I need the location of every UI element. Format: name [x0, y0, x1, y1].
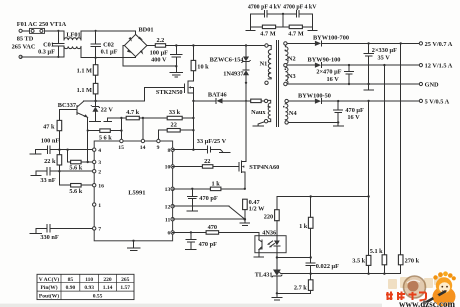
resistor 5.1k [370, 248, 387, 265]
svg-text:BZWC6-154: BZWC6-154 [210, 56, 245, 63]
svg-text:C02: C02 [103, 41, 114, 48]
svg-text:9: 9 [157, 145, 160, 151]
ground at 330nF [30, 228, 41, 233]
svg-text:STK2N50: STK2N50 [156, 89, 183, 96]
svg-text:100 nF: 100 nF [41, 138, 60, 145]
svg-text:5.6 k: 5.6 k [69, 188, 82, 195]
pin 11 [165, 217, 174, 223]
svg-text:0.3 μF: 0.3 μF [38, 49, 55, 56]
op-amp U1 L5991 controller IC box [94, 141, 172, 241]
watermark mascot [424, 271, 456, 306]
capacitor 4700pF 4kV (left) [248, 4, 283, 17]
svg-text:265 VAC: 265 VAC [12, 44, 36, 51]
capacitor 470pF at pin 13 [188, 189, 218, 210]
svg-text:2: 2 [98, 169, 101, 175]
svg-text:1.1 M: 1.1 M [77, 68, 92, 75]
svg-text:265: 265 [121, 277, 130, 283]
svg-text:BYW90-100: BYW90-100 [308, 56, 341, 63]
capacitor 33nF [36, 168, 94, 185]
svg-text:25 V/0.7 A: 25 V/0.7 A [425, 41, 453, 48]
inductor LF01 common-mode choke [64, 31, 81, 48]
svg-text:7: 7 [98, 227, 101, 233]
wire HV- return [123, 46, 178, 68]
transistor STK2N50 (startup MOSFET) [156, 81, 193, 101]
svg-text:2×330 μF: 2×330 μF [372, 47, 397, 54]
resistor 1k compensation [299, 197, 313, 258]
svg-text:33 nF: 33 nF [40, 177, 55, 184]
resistor 33k [167, 109, 182, 120]
capacitor 330nF [36, 225, 94, 241]
wire VCC vertical line [192, 100, 194, 151]
svg-text:470 μF: 470 μF [345, 107, 364, 114]
svg-text:47 k: 47 k [43, 123, 55, 130]
pin 9 [157, 139, 160, 151]
svg-text:1/2 W: 1/2 W [249, 206, 266, 213]
svg-text:5 6 k: 5 6 k [99, 134, 112, 141]
pin 3 [93, 160, 102, 166]
node output 5V [419, 98, 449, 105]
capacitor C02 [91, 30, 118, 59]
svg-text:3: 3 [98, 160, 101, 166]
svg-text:4700 pF 4 kV: 4700 pF 4 kV [248, 4, 282, 10]
svg-text:0.90: 0.90 [66, 285, 76, 291]
pin 6 [167, 231, 174, 237]
diode BYW100-700 [287, 35, 419, 46]
ground at Naux [253, 122, 265, 126]
capacitor 470uF 16V [334, 100, 364, 123]
wire opto cathode to compensation [276, 256, 312, 258]
ground below zener [89, 121, 100, 123]
shunt regulator TL431 [255, 253, 282, 295]
resistor 270k [398, 255, 419, 265]
svg-text:12 V/1.5 A: 12 V/1.5 A [425, 63, 453, 70]
wire feedback sense node line [281, 273, 401, 275]
svg-text:11: 11 [165, 217, 171, 223]
pin 8 [167, 148, 174, 154]
svg-text:270 k: 270 k [405, 258, 420, 265]
wire pin 12 [173, 206, 245, 219]
svg-text:100 μF: 100 μF [150, 49, 169, 56]
transformer winding N4 [283, 99, 297, 124]
svg-text:470: 470 [208, 224, 217, 231]
pin 4 [93, 148, 102, 154]
fuse F01 [17, 21, 67, 33]
ground at opto emitter [254, 253, 264, 258]
resistor 1.1M upper [77, 58, 98, 84]
svg-text:www.dzsc.com: www.dzsc.com [399, 299, 455, 307]
watermark stamp circle [404, 276, 426, 298]
svg-text:N3: N3 [288, 73, 296, 80]
wire pin 11 [173, 218, 247, 221]
svg-text:1 k: 1 k [211, 180, 220, 187]
resistor 3.5k [352, 255, 371, 265]
resistor 47k [43, 110, 62, 150]
svg-text:22 k: 22 k [44, 158, 56, 165]
svg-text:6: 6 [167, 231, 170, 237]
pin 15 [118, 139, 124, 151]
svg-text:16 V: 16 V [347, 114, 360, 121]
resistor 2.2 [155, 37, 165, 47]
wire 5V tap to opto bias [277, 195, 369, 209]
svg-text:LF01: LF01 [66, 31, 80, 38]
wire VCC bus [108, 117, 194, 119]
capacitor 33uF/25V at pin 8 [173, 138, 227, 153]
resistor 5.6k to pin 16 [59, 171, 94, 195]
svg-text:2.2: 2.2 [156, 37, 164, 44]
ground at N4 return [333, 122, 343, 126]
resistor 22k [44, 149, 62, 173]
capacitor 0.022uF [306, 258, 339, 274]
svg-text:5.6 k: 5.6 k [69, 165, 82, 172]
transistor BC337 [58, 101, 89, 163]
svg-text:85: 85 [68, 277, 74, 283]
resistor 10k [191, 44, 209, 81]
svg-text:13: 13 [165, 187, 171, 193]
resistor 0.47 1/2W sense [243, 199, 266, 219]
svg-text:4.7 M: 4.7 M [260, 30, 275, 37]
svg-text:4.7 k: 4.7 k [126, 109, 139, 116]
ground at 100nF [30, 150, 41, 154]
svg-text:16 V: 16 V [326, 76, 339, 83]
svg-text:TL431: TL431 [255, 272, 273, 279]
capacitor 2x330uF 35V [364, 42, 397, 84]
svg-text:15: 15 [118, 145, 124, 151]
pin 1 [93, 203, 102, 209]
pin 2 [93, 169, 102, 175]
wire pin 14 riser [142, 118, 144, 141]
svg-text:4.7 M: 4.7 M [288, 30, 303, 37]
svg-text:2×470 μF: 2×470 μF [316, 69, 341, 76]
pin 12 [165, 204, 175, 210]
diode BYW100-50 [288, 92, 419, 103]
svg-text:Pout(W): Pout(W) [39, 293, 59, 300]
svg-text:1N4937: 1N4937 [223, 70, 243, 77]
svg-text:Naux: Naux [251, 109, 266, 116]
pin 10 [165, 165, 175, 171]
resistor 4.7k [126, 109, 139, 120]
svg-text:85 TD: 85 TD [17, 36, 34, 43]
svg-text:GND: GND [425, 81, 439, 88]
node output GND [419, 81, 439, 88]
svg-text:33 μF/25 V: 33 μF/25 V [197, 138, 227, 145]
capacitor C01 [38, 30, 64, 58]
wire gate STK2N50 to clamp node [84, 88, 185, 101]
ground IC pin 5 [127, 240, 140, 251]
svg-text:4700 pF 4 kV: 4700 pF 4 kV [283, 4, 317, 10]
table power measurements [37, 274, 134, 299]
svg-text:12: 12 [165, 204, 171, 210]
svg-text:5.1 k: 5.1 k [370, 248, 383, 255]
resistor 22 at pin 9 [158, 121, 193, 141]
wire 12V feedback rail [383, 64, 385, 274]
svg-text:3.5 k: 3.5 k [352, 258, 365, 265]
ground at 33uF [219, 152, 230, 154]
svg-text:L5991: L5991 [128, 190, 145, 197]
capacitor 2x470uF 16V [316, 64, 353, 85]
resistor 4.7M (right) [283, 14, 312, 37]
svg-text:5 V/0.5 A: 5 V/0.5 A [425, 98, 450, 105]
resistor 2.7k [277, 274, 313, 294]
svg-text:16: 16 [98, 183, 104, 189]
svg-text:0.93: 0.93 [84, 285, 94, 291]
svg-text:1.57: 1.57 [120, 285, 130, 291]
ground stub snubber right [308, 27, 317, 31]
resistor 1.1M lower [77, 83, 98, 102]
wire 25V feedback rail [400, 42, 402, 274]
scan shadow bottom edge [0, 304, 382, 307]
svg-text:1.14: 1.14 [103, 285, 113, 291]
bridge rectifier BD01 [124, 26, 153, 56]
wire AC line top [21, 31, 136, 40]
svg-text:0.55: 0.55 [93, 294, 103, 300]
svg-text:F01 AC 250 VT1A: F01 AC 250 VT1A [17, 21, 67, 28]
pin 16 [93, 183, 105, 189]
capacitor 470pF at pin 6 [186, 232, 217, 248]
resistor 470 at pin 6 [173, 224, 259, 236]
resistor 22 gate STP4NA60 [173, 158, 239, 168]
watermark red text blocks [386, 292, 426, 301]
svg-text:8: 8 [167, 148, 170, 154]
ground at TL431 anode [272, 293, 282, 300]
capacitor 100nF [36, 138, 94, 154]
wire drain line primary [245, 82, 247, 160]
svg-text:10 k: 10 k [197, 63, 209, 70]
node output 25V [419, 41, 452, 48]
svg-text:220: 220 [103, 277, 112, 283]
diode 1N4937 [223, 70, 249, 83]
capacitor 100uF 400V [150, 44, 183, 66]
transformer winding N1 [260, 44, 272, 85]
ground stub snubber left [246, 27, 255, 31]
wire GND line [287, 83, 419, 85]
resistor 4.7M (left) [251, 14, 283, 37]
pin 7 [93, 227, 102, 233]
svg-text:33 k: 33 k [169, 109, 181, 116]
svg-text:1.1 M: 1.1 M [77, 87, 92, 94]
watermark faint stamp text [388, 276, 442, 289]
transformer winding N2 [284, 42, 296, 65]
svg-text:1: 1 [98, 203, 101, 209]
optocoupler 4N36 [255, 229, 286, 252]
svg-text:470 pF: 470 pF [199, 241, 218, 248]
transformer core [276, 41, 278, 127]
svg-text:Pin(W): Pin(W) [40, 284, 57, 291]
svg-text:35 V: 35 V [378, 54, 391, 61]
resistor 1k at pin 13 [173, 180, 246, 190]
svg-text:22 V: 22 V [101, 107, 114, 114]
svg-text:BD01: BD01 [138, 26, 153, 33]
svg-text:BC337: BC337 [58, 102, 76, 109]
ground at 470pF pin6 [185, 248, 196, 250]
svg-text:110: 110 [85, 277, 93, 283]
svg-text:N1: N1 [260, 61, 268, 68]
ground at bus left end [104, 118, 111, 121]
resistor (aux series) [251, 99, 265, 103]
svg-text:1 k: 1 k [299, 223, 308, 230]
node AC input terminals [12, 29, 36, 58]
svg-text:14: 14 [140, 145, 146, 151]
node output 12V [419, 63, 452, 70]
svg-text:STP4NA60: STP4NA60 [249, 164, 279, 171]
svg-text:400 V: 400 V [151, 56, 167, 63]
svg-text:22: 22 [204, 158, 210, 165]
svg-text:4N36: 4N36 [262, 229, 276, 236]
zener diode 22V [91, 101, 113, 121]
resistor 5.6k to pin 3 [66, 149, 94, 172]
wire N4 return [288, 121, 339, 123]
wire AC line bottom [21, 46, 136, 57]
capacitor 4700pF 4kV (right) [282, 4, 317, 17]
transistor Q2 STP4NA60 [239, 160, 279, 189]
svg-text:470 pF: 470 pF [199, 195, 218, 202]
svg-text:V AC(V): V AC(V) [39, 276, 60, 283]
svg-text:N2: N2 [288, 55, 296, 62]
resistor 5.6k at pin 15 [88, 129, 122, 141]
svg-text:22: 22 [171, 121, 177, 128]
svg-text:BAT46: BAT46 [208, 92, 227, 99]
wire HV+ rail [147, 45, 265, 47]
svg-text:0.1 μF: 0.1 μF [101, 48, 118, 55]
svg-text:10: 10 [165, 165, 171, 171]
transformer winding N3 [284, 63, 296, 85]
svg-text:330 nF: 330 nF [40, 234, 59, 241]
transformer winding Naux [251, 99, 271, 123]
svg-text:4: 4 [98, 148, 101, 154]
pin 13 [165, 187, 175, 193]
ground primary (below 100uF) [170, 66, 183, 77]
wire pin 15 riser [120, 118, 122, 141]
pin 14 [140, 139, 146, 151]
watermark url text [399, 299, 455, 307]
ground at 470pF pin13 [187, 210, 198, 212]
ground at 33nF [31, 171, 41, 175]
svg-text:C01: C01 [43, 41, 54, 48]
svg-text:220: 220 [264, 214, 273, 221]
svg-text:BYW100-700: BYW100-700 [313, 35, 349, 42]
wire 5V feedback rail [367, 100, 369, 274]
resistor 220 [264, 210, 279, 236]
diode BAT46 [193, 92, 250, 104]
diode BYW90-100 [287, 56, 419, 67]
ground at GND line [364, 83, 373, 90]
zener BZWC6-154 clamp [210, 44, 251, 70]
svg-text:N4: N4 [289, 110, 298, 117]
svg-text:0.022 μF: 0.022 μF [316, 263, 339, 270]
svg-text:BYW100-50: BYW100-50 [298, 92, 331, 99]
ground at sense node [240, 219, 250, 225]
svg-text:2.7 k: 2.7 k [294, 285, 307, 292]
